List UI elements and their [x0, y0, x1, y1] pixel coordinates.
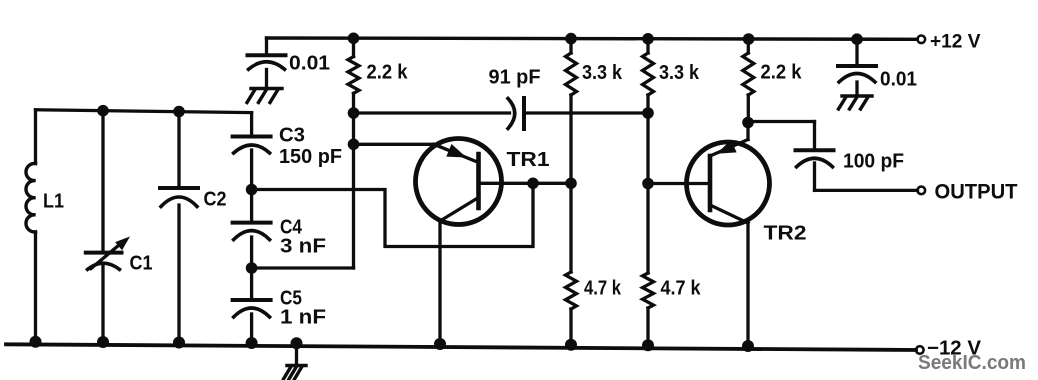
resistor 2.2k (left) — [352, 38, 355, 56]
node rail/3.3k first — [565, 33, 577, 45]
resistor 3.3k (first) — [569, 39, 572, 53]
terminal OUTPUT — [918, 187, 926, 195]
svg-text:2.2 k: 2.2 k — [367, 62, 409, 84]
node base wire / C3-C4 loop — [527, 178, 539, 190]
resistor 3.3k (second) — [646, 39, 649, 53]
svg-text:OUTPUT: OUTPUT — [935, 181, 1018, 204]
wire C2 bottom — [177, 205, 180, 346]
wire C4/C5 junction to 2.2k column — [252, 266, 354, 269]
node TR1 emitter tap — [348, 139, 360, 151]
wire C3/C4 junction loop — [252, 183, 533, 246]
capacitor 0.01 (right bypass) — [855, 39, 858, 66]
svg-text:3.3 k: 3.3 k — [659, 62, 700, 84]
node feedback/91pF tap — [348, 107, 360, 119]
wire C3 bottom — [250, 150, 253, 223]
variable capacitor C1 — [86, 251, 122, 255]
capacitor 0.01 (left bypass) — [265, 38, 268, 55]
node C2 top — [173, 106, 185, 118]
terminal +12V — [918, 36, 926, 44]
wire C1 column top — [101, 111, 104, 253]
wire 100pF to OUTPUT — [813, 163, 816, 190]
node TR2 base tap — [642, 178, 654, 190]
transistor TR1 — [416, 139, 502, 225]
wire TR1 emitter lead — [354, 143, 435, 146]
svg-text:150 pF: 150 pF — [279, 146, 342, 168]
node TR2 collector/rail — [742, 340, 754, 352]
svg-text:91 pF: 91 pF — [489, 67, 541, 89]
node TR2 emitter/2.2k/100pF — [742, 117, 754, 129]
node rail/3.3k second — [642, 33, 654, 45]
wire ground stub — [295, 343, 298, 365]
resistor 4.7k (first) — [569, 183, 572, 272]
wire C3 top stub — [250, 113, 253, 137]
wire C1 bottom — [101, 265, 104, 345]
svg-text:+12 V: +12 V — [930, 32, 981, 53]
svg-text:TR1: TR1 — [507, 149, 550, 171]
svg-text:1 nF: 1 nF — [280, 307, 326, 329]
transistor TR2 — [687, 142, 770, 225]
wire C5 bottom — [250, 314, 253, 346]
svg-text:0.01: 0.01 — [880, 69, 917, 91]
node C2/rail — [173, 337, 185, 349]
node ground tap on rail — [291, 337, 303, 349]
node L1/rail — [30, 336, 42, 348]
ground (left 0.01) — [251, 87, 282, 90]
svg-text:4.7 k: 4.7 k — [584, 278, 622, 300]
wire top of tank (L1/C1/C2/C3) — [36, 110, 252, 113]
capacitor 91 pF — [508, 99, 515, 129]
wire L1 top drop — [34, 110, 37, 164]
capacitor C3 — [233, 135, 271, 139]
-12V supply rail (bottom) — [6, 344, 916, 350]
svg-text:C2: C2 — [204, 189, 227, 211]
node rail/0.01 right — [851, 33, 863, 45]
capacitor C4 — [233, 221, 271, 225]
terminal -12V — [916, 346, 924, 354]
node C1/rail — [97, 336, 109, 348]
wire 91pF right — [524, 111, 648, 114]
svg-text:C3: C3 — [279, 125, 305, 147]
svg-text:100 pF: 100 pF — [843, 151, 904, 173]
svg-text:3 nF: 3 nF — [280, 236, 326, 258]
node rail/2.2k left — [348, 33, 360, 45]
wire 91pF left — [354, 111, 510, 114]
svg-text:4.7 k: 4.7 k — [661, 278, 702, 300]
wire C4 bottom — [250, 237, 253, 300]
wire 2.2k bottom column — [352, 93, 355, 268]
svg-text:C1: C1 — [130, 253, 153, 275]
capacitor 100 pF — [796, 148, 834, 152]
node 4.7k second/rail — [642, 339, 654, 351]
wire TR1 base lead to 3.3k column — [479, 182, 572, 185]
wire L1 bottom — [34, 232, 37, 345]
resistor 4.7k (second) — [643, 273, 654, 308]
node C4/C5 junction — [246, 262, 258, 274]
node 91pF/3.3k column — [642, 107, 654, 119]
wire TR2 base lead — [648, 182, 710, 185]
capacitor C2 — [160, 186, 198, 190]
wire TR2 collector drop — [746, 223, 749, 349]
node TR1 collector/rail — [434, 338, 446, 350]
node C3/C4 junction — [246, 184, 258, 196]
ground (right 0.01) — [842, 94, 872, 97]
svg-text:0.01: 0.01 — [289, 53, 330, 75]
+12V supply rail (top) — [267, 38, 918, 39]
node C1 top — [97, 105, 109, 117]
svg-text:L1: L1 — [43, 191, 64, 213]
node 3.3k/4.7k/TR1 base — [565, 178, 577, 190]
ground (bottom center) — [287, 364, 306, 367]
capacitor C5 — [233, 298, 271, 302]
wire TR2 emitter to 100pF — [748, 120, 815, 123]
wire TR1 collector drop — [438, 221, 441, 347]
node rail/2.2k right — [743, 33, 755, 45]
node 4.7k first/rail — [565, 339, 577, 351]
svg-text:SeekIC.com: SeekIC.com — [918, 352, 1026, 374]
svg-text:3.3 k: 3.3 k — [582, 62, 623, 84]
node C5/rail — [246, 337, 258, 349]
resistor 2.2k (right) — [747, 39, 750, 53]
wire C2 column top — [177, 112, 180, 189]
svg-text:2.2 k: 2.2 k — [761, 62, 803, 84]
inductor L1 — [26, 163, 36, 232]
svg-text:TR2: TR2 — [764, 223, 807, 245]
